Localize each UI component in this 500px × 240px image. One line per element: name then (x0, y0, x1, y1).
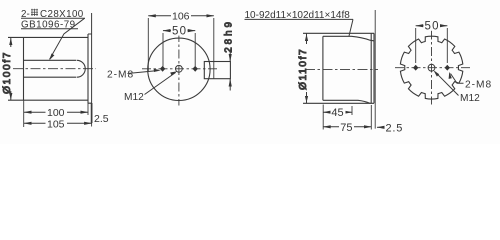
spline view horizontal centerline (395, 67, 473, 69)
leader from spline label (349, 19, 353, 36)
dimension 106 (148, 11, 214, 23)
label 2-M8 middle (107, 69, 161, 81)
middle view horizontal centerline (142, 68, 218, 70)
dimension 50 spline view (416, 20, 448, 32)
middle view M12 center hole (176, 65, 183, 72)
dimension 50 extension lines spline view (416, 28, 448, 63)
dimension 75 (323, 122, 371, 134)
spline shaft end view toothed outline (400, 36, 462, 99)
right side view horizontal centerline (305, 68, 378, 70)
svg-text:105: 105 (47, 118, 65, 130)
middle view vertical centerline (178, 33, 180, 106)
dimension phi110f7 line (306, 33, 308, 103)
middle view key cross-section rectangle (204, 62, 230, 79)
middle view circle (hub end face) (148, 38, 210, 100)
dimension 50 middle (163, 25, 195, 37)
svg-text:28h9: 28h9 (223, 19, 234, 53)
label 2-keyC28X100 (21, 9, 85, 20)
spline view M8 hole right (445, 65, 450, 71)
left view rim right face extension line (91, 13, 93, 124)
spline view M8 hole left (413, 65, 418, 71)
left view rim (flange edge) (88, 34, 92, 103)
left view hub body outline (8, 37, 88, 100)
svg-text:2-M8: 2-M8 (465, 80, 492, 91)
dimension 105 (24, 118, 92, 130)
right view bottom extension lines (323, 10, 375, 130)
label M12 middle (124, 71, 177, 103)
middle view M8 hole left (160, 66, 165, 72)
right side view sleeve bottom edge with extension (303, 102, 374, 104)
svg-text:2-M8: 2-M8 (107, 69, 134, 80)
right side view rim face (373, 33, 375, 103)
svg-text:50: 50 (425, 20, 440, 32)
svg-text:Ø110f7: Ø110f7 (298, 48, 309, 90)
label 2-M8 spline view (449, 72, 493, 91)
dimension phi110f7 arrows (305, 34, 308, 103)
leader from key label to keyway (49, 18, 84, 60)
label M12 spline view (434, 70, 481, 104)
label GB1096-79 (21, 19, 78, 30)
right side view spline OD top line and runout (323, 36, 374, 41)
dimension 106 extension lines (148, 18, 214, 71)
right side view left face (322, 36, 324, 100)
svg-text:45: 45 (331, 107, 343, 119)
svg-text:2.5: 2.5 (386, 122, 404, 134)
dimension phi100f7 arrows (9, 38, 12, 100)
left view bottom extension lines (24, 100, 92, 127)
svg-text:50: 50 (172, 25, 187, 37)
svg-text:M12: M12 (124, 92, 144, 103)
middle view M8 hole right (193, 66, 198, 72)
left view horizontal centerline (13, 68, 96, 70)
dimension 2.5 right view (377, 122, 403, 134)
svg-text:106: 106 (172, 11, 190, 23)
dimension 100 (24, 107, 88, 119)
spline spec label 10-92d11x102d11x14f8 (245, 10, 354, 21)
left view keyway slot (24, 60, 86, 77)
spline view M12 center hole (428, 64, 435, 71)
spline view vertical centerline (431, 31, 433, 105)
dimension 45 (323, 107, 352, 119)
right side view right face (370, 33, 372, 103)
right side view sleeve OD110 top edge with extension (303, 32, 374, 34)
svg-text:M12: M12 (460, 93, 480, 104)
dimension 28h9 (223, 19, 234, 90)
dimension 50 extension lines middle (163, 33, 195, 67)
dimension phi100f7 line (10, 37, 12, 100)
svg-text:2.5: 2.5 (94, 113, 109, 125)
svg-text:Ø100f7: Ø100f7 (2, 51, 13, 94)
right side view spline OD bottom line and runout (323, 100, 371, 103)
svg-text:75: 75 (340, 122, 352, 134)
